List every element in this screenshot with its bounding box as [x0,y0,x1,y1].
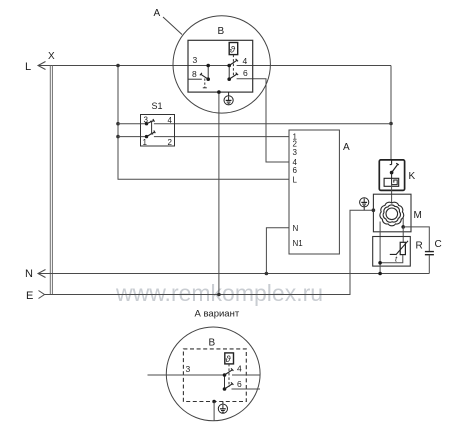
relay K box [379,160,404,191]
K lever [392,163,399,172]
variant wire 3 [148,374,225,376]
ground symbol M [360,198,369,211]
thermostat box [229,43,238,55]
wire L vertical to K [390,66,392,160]
node contact 6 pivot [227,77,231,81]
node L/S1-4 junction [389,122,393,126]
svg-text:N: N [25,268,33,280]
node L branch [116,64,120,68]
svg-text:K: K [409,171,416,182]
svg-text:6: 6 [243,68,248,78]
node variant housing [212,400,216,404]
net E wire [44,210,373,294]
ground symbol variant [218,402,227,414]
interlock box B [188,40,253,92]
variant lever 4 [225,368,234,375]
node S1 pivot 1 [145,135,148,138]
sensor R box [373,237,411,267]
svg-text:B: B [209,338,216,349]
wire motor tap to thermistor [402,227,404,242]
wire L branch to S1 and A:L [118,66,289,180]
net L arrow head [38,62,46,70]
node S1-3 branch [116,122,120,126]
svg-text:8: 8 [192,69,197,79]
net L wire (arrow to contact 3) [38,65,229,67]
svg-text:X: X [48,51,55,62]
wire to S1 terminal 3 [118,123,147,125]
wire contact 4 to K drop [237,65,391,67]
node contact 4 pivot [227,64,231,68]
svg-text:3: 3 [293,148,298,157]
capacitor C plates [425,252,434,255]
node S1-1 branch [116,135,120,139]
wire B housing to E [218,92,220,294]
svg-text:S1: S1 [152,101,163,111]
S1 lever upper [147,119,155,124]
wire K to M [391,185,393,203]
lever 4 [229,59,238,66]
variant lever 6 [225,382,234,389]
manual actuator dashed [204,79,206,88]
wire thermistor to N [380,255,403,274]
K heater element [391,173,393,179]
S1 lever lower [147,131,156,137]
lever 8 [200,73,208,79]
variant circle [166,327,260,421]
svg-text:6: 6 [237,379,242,389]
svg-text:А вариант: А вариант [195,309,240,320]
svg-text:E: E [26,290,33,302]
motor right tap [402,217,404,227]
switch S1 box [141,115,175,147]
control module A box [289,130,339,254]
node contact3 [206,64,210,68]
variant pivot drop [224,375,226,389]
wire to S1 terminal 1 [118,136,147,138]
wire A terminal N to net N [266,228,289,274]
switch 3-8 pivot drop [207,66,209,80]
svg-text:R: R [416,241,423,252]
motor M box [373,194,411,232]
variant wire 6 [232,388,261,390]
node R to N [378,272,382,276]
thermistor diagonal [390,241,408,255]
net N arrow head [38,270,46,278]
node N junction A [265,272,269,276]
node variant pivot 4 [223,373,227,377]
svg-text:4: 4 [243,56,248,66]
svg-text:2: 2 [168,138,173,147]
wire S1-4 to K junction [154,123,391,125]
net N wire [38,273,429,275]
node motor tap [401,225,405,229]
contact 8 fixed wire [188,78,202,80]
thermostat link dashed [232,55,234,77]
net E arrow head [39,291,45,299]
wire S1-2 to A terminal 1 [154,136,289,138]
label A leader line [163,17,182,35]
svg-text:3: 3 [186,364,191,374]
node R junction [378,261,382,265]
svg-text:4: 4 [237,364,242,374]
motor stator ring [380,202,404,226]
node K pivot [390,171,394,175]
svg-text:1: 1 [143,138,148,147]
svg-text:6: 6 [293,166,298,175]
variant thermostat box [225,353,234,364]
variant box B dashed [183,349,246,402]
node E ground dot [372,208,376,212]
node housing bottom [217,90,221,94]
svg-text:ϑ: ϑ [230,44,236,55]
thermistor body [400,242,405,254]
K heater inner hook [392,178,398,184]
svg-text:B: B [218,26,225,37]
S1 mechanical link [150,121,153,134]
svg-text:N: N [293,224,299,233]
wire capacitor to N [428,255,430,274]
node variant pivot 6 [223,387,227,391]
svg-text:A: A [343,142,350,153]
svg-text:M: M [414,210,422,221]
ground symbol B [224,92,233,105]
variant thermostat link dashed [228,364,230,387]
K fixed contact [390,160,392,165]
svg-text:C: C [435,239,442,250]
svg-text:L: L [25,61,31,73]
node S1 pivot 3 [145,122,148,125]
svg-text:N1: N1 [293,239,304,248]
wire B contact 6 to A terminal 4 [237,79,289,162]
terminal X double line [50,66,52,295]
interlock unit circle [173,16,270,113]
variant housing drop wire [213,402,215,421]
lever 6 [229,73,238,80]
wire motor to capacitor [403,227,429,252]
svg-text:A: A [154,8,161,19]
svg-text:L: L [293,176,298,185]
node B-E junction [217,293,221,297]
svg-text:4: 4 [168,116,173,125]
variant wire 4 [232,374,260,376]
motor bottom-left wire to R junction [379,222,381,263]
svg-text:ϑ: ϑ [225,354,231,365]
switch 4-6 pivot drop [228,66,230,80]
svg-text:3: 3 [193,55,198,65]
node pivot 8 [206,77,210,81]
